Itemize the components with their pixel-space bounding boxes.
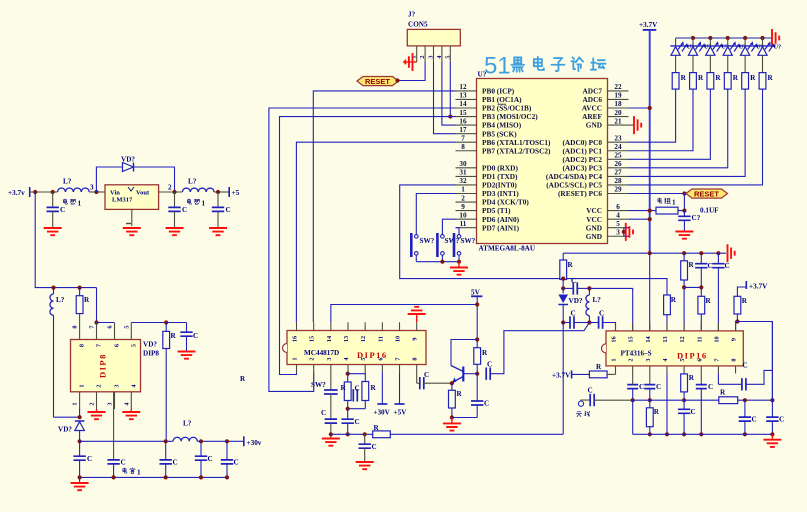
junction GND pins bbox=[622, 230, 626, 234]
svg-text:R: R bbox=[715, 74, 721, 82]
wire PB6 to MC44817 pin16 bbox=[296, 142, 455, 322]
capacitor C (MC pin4 node) bbox=[342, 409, 360, 435]
junction rail / cap column 745 bbox=[743, 432, 747, 436]
svg-text:L?: L? bbox=[593, 296, 602, 304]
antenna 天线 bbox=[578, 401, 583, 406]
resistor R (PT pin12 column) bbox=[681, 251, 695, 331]
svg-text:C: C bbox=[708, 383, 713, 391]
svg-text:7: 7 bbox=[713, 358, 720, 361]
capacitor C (base bypass) bbox=[452, 374, 489, 418]
chip U? MC44817D body bbox=[283, 331, 427, 365]
PT4316 pin stubs and numbers bbox=[611, 323, 738, 374]
capacitor C (rail mid) bbox=[160, 441, 178, 477]
svg-text:R: R bbox=[768, 74, 774, 82]
svg-text:C: C bbox=[691, 408, 696, 416]
capacitor C (PT pin3) bbox=[644, 374, 661, 401]
svg-text:DIP8: DIP8 bbox=[143, 350, 159, 358]
svg-text:12: 12 bbox=[459, 83, 467, 91]
svg-text:VD?: VD? bbox=[121, 156, 135, 164]
varicap diode VD? bbox=[558, 288, 582, 322]
svg-text:C: C bbox=[182, 206, 187, 214]
svg-text:31: 31 bbox=[459, 169, 467, 177]
svg-text:C: C bbox=[743, 362, 748, 370]
ground above MC pin9 (inverted) bbox=[408, 307, 426, 323]
ground at GND pins 5,3 bbox=[626, 223, 633, 241]
wire +3.7v feed bbox=[30, 191, 58, 193]
MC44817D pin stubs and numbers bbox=[292, 322, 419, 372]
svg-text:1: 1 bbox=[78, 200, 82, 208]
svg-text:R: R bbox=[720, 389, 726, 397]
capacitor C (PT pin10 column) bbox=[712, 251, 730, 331]
svg-text:L?: L? bbox=[56, 296, 65, 304]
junction pin3 bottom rail bbox=[648, 432, 652, 436]
3.7V rail top of PT section bbox=[563, 252, 726, 254]
svg-text:8: 8 bbox=[461, 143, 465, 151]
wire DIP8 pin5 to RC bbox=[131, 323, 186, 340]
connector J? CON5 bbox=[407, 11, 460, 46]
svg-text:R: R bbox=[341, 384, 347, 392]
switch SW1 bbox=[411, 233, 434, 257]
bottom ground rail bbox=[80, 476, 227, 478]
svg-text:15: 15 bbox=[309, 336, 316, 342]
svg-text:VD?: VD? bbox=[58, 426, 72, 434]
svg-text:R: R bbox=[171, 332, 177, 340]
junction DIP8 rail / resistor bbox=[78, 286, 82, 290]
svg-text:1: 1 bbox=[202, 200, 206, 208]
resistor R (PT pin11 series) bbox=[698, 287, 712, 331]
switch SW2 bbox=[437, 233, 459, 257]
wire LED resistor #1 to PC0 bbox=[629, 89, 676, 142]
wire pins7-6 tie bbox=[97, 323, 115, 340]
ground below rail bypass cap bbox=[356, 462, 374, 469]
resistor R (DIP8 pin8) bbox=[76, 288, 90, 340]
svg-text:R: R bbox=[671, 296, 677, 304]
op-amp U? ATMEGA8L-8AU body bbox=[477, 71, 608, 253]
svg-text:32: 32 bbox=[459, 177, 467, 185]
resistor 电阻1 (reset pullup) bbox=[656, 198, 678, 214]
svg-text:C: C bbox=[372, 443, 377, 451]
wire DIP8 pin1 to +30v rail bbox=[54, 409, 80, 417]
svg-text:R: R bbox=[482, 349, 488, 357]
svg-text:R: R bbox=[371, 384, 377, 392]
wire rail to PT pin14 bbox=[649, 253, 651, 331]
resistor R (PT pin13 series) bbox=[664, 295, 677, 331]
svg-text:14: 14 bbox=[459, 100, 467, 108]
junction +5 filter cap bbox=[216, 190, 220, 194]
svg-text:20: 20 bbox=[614, 109, 622, 117]
svg-text:1: 1 bbox=[292, 357, 299, 360]
wire PD7 to switch SW3 bbox=[456, 228, 460, 235]
capacitor C? 0.1UF bbox=[678, 207, 719, 223]
LED U? #3 bbox=[706, 38, 729, 73]
svg-text:5: 5 bbox=[360, 357, 367, 360]
ground below +5 filter cap bbox=[209, 211, 227, 235]
svg-text:C: C bbox=[208, 455, 213, 463]
junction pin5 bottom rail bbox=[682, 432, 686, 436]
svg-text:U?: U? bbox=[774, 44, 782, 51]
power +5 terminal bbox=[229, 187, 239, 197]
svg-text:ATMEGA8L-8AU: ATMEGA8L-8AU bbox=[479, 245, 536, 253]
DIP8 bottom pin stubs bbox=[80, 392, 132, 409]
regulator U? LM317 Vin/Vout bbox=[105, 185, 159, 210]
junction rail cap 1 bbox=[164, 439, 168, 443]
chip U? DIP8 body bbox=[71, 340, 160, 392]
svg-text:U?: U? bbox=[478, 71, 487, 79]
resistor R (base bias) bbox=[474, 348, 488, 365]
svg-text:51: 51 bbox=[484, 53, 511, 80]
svg-text:R: R bbox=[706, 297, 712, 305]
svg-text:C: C bbox=[484, 400, 489, 408]
junction LED rail 6 bbox=[760, 36, 764, 40]
svg-text:Vout: Vout bbox=[136, 190, 150, 197]
wire varicap column down to rail bbox=[562, 323, 564, 435]
junction DIP8 rail / inductor bbox=[51, 286, 55, 290]
svg-text:22: 22 bbox=[614, 83, 622, 91]
chip U? PT4316-S body bbox=[602, 331, 744, 366]
junction LED rail 2 bbox=[691, 36, 695, 40]
power +3.7V at PT pin9 bbox=[746, 281, 768, 291]
LED U? #2 bbox=[688, 38, 711, 73]
junction +30v rail left bbox=[78, 439, 82, 443]
resistor R (varicap feed) bbox=[560, 253, 574, 279]
svg-text:CON5: CON5 bbox=[408, 21, 428, 29]
junction LED rail 5 bbox=[743, 36, 747, 40]
inductor L? 电感1 (input) bbox=[58, 178, 90, 208]
svg-text:19: 19 bbox=[614, 92, 622, 100]
junction +3.7v branch down bbox=[33, 190, 37, 194]
ground below input cap bbox=[44, 211, 62, 235]
capacitor C (column 745) bbox=[739, 400, 757, 434]
svg-text:28: 28 bbox=[614, 177, 622, 185]
svg-text:3: 3 bbox=[114, 384, 121, 387]
svg-text:R: R bbox=[568, 261, 574, 269]
power +3.7V top bbox=[639, 21, 658, 30]
svg-text:30: 30 bbox=[459, 160, 467, 168]
svg-text:18: 18 bbox=[614, 100, 622, 108]
svg-text:VD?: VD? bbox=[569, 297, 583, 305]
svg-text:SW?: SW? bbox=[461, 237, 476, 245]
wire regulator output bbox=[159, 191, 183, 193]
junction pin4 bottom rail bbox=[665, 432, 669, 436]
wire LED resistor #3 to PC2 bbox=[629, 89, 711, 159]
svg-text:6: 6 bbox=[696, 358, 703, 361]
svg-text:5: 5 bbox=[123, 325, 130, 328]
wire CON5 pin3 to PB5 row bbox=[434, 62, 456, 134]
junction 5V / MC pin14 wire bbox=[475, 302, 479, 306]
svg-text:+3.7V: +3.7V bbox=[749, 283, 768, 291]
junction tank bottom right bbox=[587, 320, 591, 324]
regulator ADJ pin to ground bbox=[123, 209, 141, 235]
svg-text:C: C bbox=[424, 371, 429, 379]
wire VCC pin6 row bbox=[629, 210, 657, 212]
DIP8 pin numbers bbox=[72, 325, 138, 405]
svg-text:2: 2 bbox=[89, 402, 96, 405]
svg-text:C: C bbox=[708, 262, 713, 270]
inductor L? (tank) bbox=[586, 288, 601, 322]
LED U? #6 bbox=[758, 38, 781, 73]
junction left rail / pin4 cap bbox=[346, 432, 350, 436]
svg-text:C: C bbox=[234, 459, 239, 467]
svg-text:7: 7 bbox=[96, 344, 103, 347]
svg-text:24: 24 bbox=[614, 143, 622, 151]
svg-text:C: C bbox=[571, 310, 576, 318]
svg-text:3: 3 bbox=[90, 184, 94, 192]
junction rail / +3.7V feed bbox=[648, 251, 652, 255]
svg-text:6: 6 bbox=[616, 203, 620, 211]
capacitor C 电容1 (DIP8 pin3) bbox=[107, 392, 141, 478]
capacitor C (rail bypass) bbox=[359, 434, 377, 462]
svg-text:6: 6 bbox=[114, 344, 121, 347]
junction pin3 bus bbox=[648, 398, 652, 402]
svg-text:11: 11 bbox=[696, 337, 703, 343]
svg-text:5: 5 bbox=[444, 55, 451, 58]
junction CON5 pin5 / PB3 bbox=[448, 114, 452, 118]
svg-text:7: 7 bbox=[461, 134, 465, 142]
resonator at MC pin3 (upper) bbox=[314, 372, 338, 394]
wires switches to ground rail bbox=[416, 255, 459, 262]
svg-text:2: 2 bbox=[309, 357, 316, 360]
svg-text:+3.7V: +3.7V bbox=[639, 21, 658, 29]
bus 400 right segment bbox=[738, 399, 773, 401]
svg-text:C: C bbox=[321, 409, 326, 417]
ground below output cap bbox=[166, 211, 184, 235]
wire rail to DIP8 pin7 bbox=[96, 288, 98, 323]
junction pin9 node bbox=[735, 319, 739, 323]
svg-text:+3.7v: +3.7v bbox=[8, 189, 25, 197]
junction reset node / cap bbox=[682, 209, 686, 213]
svg-text:29: 29 bbox=[614, 186, 622, 194]
svg-text:+5: +5 bbox=[232, 189, 240, 197]
svg-text:8: 8 bbox=[72, 325, 79, 328]
junction varicap top node bbox=[561, 277, 565, 281]
svg-text:23: 23 bbox=[614, 134, 622, 142]
svg-text:8: 8 bbox=[412, 357, 419, 360]
svg-text:MC44817D: MC44817D bbox=[304, 349, 339, 357]
resistor R (LED #6) bbox=[759, 73, 773, 90]
ground MC pin3 bbox=[322, 439, 340, 446]
resistor R (LED #3) bbox=[707, 73, 721, 90]
ground below pin5 cap bbox=[178, 352, 196, 359]
svg-text:13: 13 bbox=[459, 92, 467, 100]
power +30V terminal at MC pin6 bbox=[373, 372, 390, 416]
svg-text:26: 26 bbox=[614, 160, 622, 168]
CON5 pins 1-5 bbox=[411, 46, 452, 62]
inductor L? 电感1 (output) bbox=[182, 178, 214, 208]
left bottom rail to varicap column bbox=[331, 433, 563, 435]
RESET net flag (right) bbox=[686, 189, 728, 198]
wire LED resistor #5 to PC4 bbox=[629, 89, 746, 176]
junction emitter node bbox=[450, 381, 454, 385]
LED anode rail top right bbox=[676, 37, 772, 39]
bus 400 wires bbox=[633, 399, 719, 401]
junction varicap / cap node bbox=[561, 286, 565, 290]
svg-text:1: 1 bbox=[672, 199, 676, 207]
resistor R (LED #4) bbox=[724, 73, 738, 90]
capacitor C (rail 4) bbox=[195, 441, 213, 477]
svg-text:1: 1 bbox=[611, 358, 618, 361]
svg-text:R: R bbox=[374, 424, 380, 432]
svg-text:12: 12 bbox=[679, 336, 686, 342]
capacitor C (MC pin3 lower) bbox=[321, 394, 337, 439]
ground bottom left bbox=[71, 477, 89, 490]
wire PD2 to varicap node and PT4316 pin13 bbox=[400, 185, 667, 295]
svg-text:16: 16 bbox=[292, 336, 299, 342]
svg-text:12: 12 bbox=[360, 336, 367, 342]
capacitor C (amp output coupling) bbox=[486, 323, 589, 380]
svg-text:3: 3 bbox=[645, 358, 652, 361]
wire PD6 to switch SW2 bbox=[442, 219, 455, 235]
wire AVCC row bbox=[629, 107, 650, 109]
wire pullup to reset node bbox=[678, 194, 684, 211]
junction DIP8 pin7 top bbox=[94, 320, 98, 324]
power 5V bbox=[471, 289, 482, 297]
junction base node bbox=[475, 372, 479, 376]
svg-text:9: 9 bbox=[412, 337, 419, 340]
junction MC pin3 / left rail bbox=[329, 432, 333, 436]
svg-text:Vin: Vin bbox=[110, 190, 120, 197]
svg-text:2: 2 bbox=[96, 384, 103, 387]
wire PC6 to RESET flag bbox=[629, 193, 685, 195]
junction PC6 reset node bbox=[682, 191, 686, 195]
svg-text:11: 11 bbox=[460, 220, 467, 228]
power +30v terminal bbox=[244, 436, 262, 447]
U? left pins PB0-PD7 with numbers bbox=[456, 83, 552, 232]
svg-text:3: 3 bbox=[428, 55, 435, 58]
wire CON5 pin5 to PB3 row bbox=[449, 62, 451, 117]
capacitor C (DIP8 pin5) bbox=[180, 323, 198, 352]
svg-text:+30V: +30V bbox=[373, 409, 390, 417]
svg-text:C: C bbox=[725, 262, 730, 270]
junction VCC / +3.7V rail bbox=[648, 209, 652, 213]
svg-text:2: 2 bbox=[461, 194, 465, 202]
svg-text:0.1UF: 0.1UF bbox=[700, 207, 719, 215]
svg-text:C: C bbox=[60, 206, 65, 214]
U? right pins ADC/PC/VCC/GND with numbers bbox=[546, 83, 629, 241]
svg-text:27: 27 bbox=[614, 169, 622, 177]
svg-text:9: 9 bbox=[731, 338, 738, 341]
svg-text:5V: 5V bbox=[471, 289, 481, 297]
svg-text:25: 25 bbox=[614, 152, 622, 160]
tank bottom wire and caps to PT pin16 bbox=[563, 310, 615, 331]
junction rail / bypass cap bbox=[363, 432, 367, 436]
junction node 2 bbox=[172, 190, 176, 194]
diode VD? (bypass over regulator) bbox=[96, 156, 174, 193]
svg-text:5: 5 bbox=[616, 220, 620, 228]
ground bottom right bbox=[763, 434, 781, 447]
wire pin12 to pin11 node bbox=[684, 286, 701, 288]
junction bottom rail points bbox=[78, 475, 230, 479]
capacitor C (+5 filter) bbox=[212, 192, 231, 214]
junction VCC pin4 / +3.7V rail bbox=[648, 217, 652, 221]
svg-text:+5V: +5V bbox=[394, 409, 408, 417]
svg-text:LM317: LM317 bbox=[112, 197, 133, 204]
junction pin2 bus bbox=[631, 398, 635, 402]
wire +3.7v down to DIP8 rail bbox=[35, 192, 96, 288]
svg-text:R: R bbox=[750, 74, 756, 82]
svg-text:C: C bbox=[779, 416, 784, 424]
svg-text:C: C bbox=[355, 418, 360, 426]
svg-text:PD7 (AIN1): PD7 (AIN1) bbox=[482, 223, 520, 232]
svg-text:C: C bbox=[193, 332, 198, 340]
junction tank bottom left bbox=[561, 320, 565, 324]
ground at CON5 pin 1 bbox=[403, 53, 417, 71]
svg-text:C: C bbox=[571, 277, 576, 285]
ground below reset cap bbox=[675, 220, 693, 238]
svg-text:RESET: RESET bbox=[694, 189, 719, 198]
svg-text:11: 11 bbox=[377, 336, 384, 342]
wire +3.7V rail down to AVCC, VCC and 3.7V rail bbox=[649, 30, 651, 253]
svg-text:2: 2 bbox=[628, 358, 635, 361]
resistor R (LED #5) bbox=[742, 73, 756, 90]
svg-text:1: 1 bbox=[137, 469, 141, 477]
wire LED resistor #6 to PC5 bbox=[629, 89, 763, 185]
capacitor C (pin1 node) bbox=[73, 441, 92, 477]
svg-text:SW?: SW? bbox=[420, 237, 435, 245]
ground at right end of LED rail bbox=[772, 29, 779, 47]
junction SW3 ground rail bbox=[457, 260, 461, 264]
svg-text:R: R bbox=[733, 74, 739, 82]
bottom rail right section bbox=[633, 433, 773, 435]
junction pin12/pin11 tie bbox=[682, 285, 686, 289]
junction emitter ground rail bbox=[450, 415, 454, 419]
svg-text:3: 3 bbox=[107, 402, 114, 405]
wire pin9 node down to chip bbox=[736, 322, 738, 331]
svg-text:C: C bbox=[87, 455, 92, 463]
svg-text:4: 4 bbox=[616, 211, 620, 219]
svg-text:GND: GND bbox=[586, 232, 602, 241]
wire varicap node down bbox=[562, 279, 564, 289]
svg-text:13: 13 bbox=[343, 336, 350, 342]
capacitor C (PT pin11 column) bbox=[695, 251, 713, 289]
resistor R (bus horizontal) bbox=[719, 389, 738, 404]
svg-text:3: 3 bbox=[326, 357, 333, 360]
svg-text:L?: L? bbox=[183, 420, 192, 428]
diode VD? (boost rectifier) bbox=[58, 421, 84, 441]
wire LED resistor #4 to PC3 bbox=[629, 89, 728, 168]
svg-text:10: 10 bbox=[713, 336, 720, 342]
svg-text:C: C bbox=[599, 310, 604, 318]
capacitor C (PT pin2) bbox=[627, 374, 644, 401]
wire pin2 column down to bottom rail bbox=[632, 400, 634, 434]
svg-text:R: R bbox=[689, 374, 695, 382]
wire collector branch bbox=[451, 340, 477, 366]
wire CON5 pin2 to RESET net bbox=[398, 62, 426, 81]
junction node 3 bbox=[94, 190, 98, 194]
ground below switches bbox=[450, 262, 468, 275]
+30v rail bbox=[80, 440, 244, 442]
svg-text:17: 17 bbox=[459, 126, 467, 134]
LED cathode bar line bbox=[670, 45, 775, 47]
power +5V terminal at MC pin7 bbox=[394, 372, 408, 416]
ground DIP8 pin4 bbox=[122, 409, 140, 419]
ground at GND pin21 bbox=[629, 116, 642, 134]
junction rail cap 2 bbox=[199, 439, 203, 443]
resistor R (horizontal on rail) bbox=[373, 424, 391, 438]
wires GND pins 5,3 to ground bbox=[624, 228, 629, 237]
svg-text:C: C bbox=[226, 206, 231, 214]
svg-text:L?: L? bbox=[188, 178, 197, 186]
svg-text:R: R bbox=[240, 375, 246, 383]
overline above SS in PB2 label bbox=[498, 103, 507, 105]
svg-text:R: R bbox=[742, 297, 748, 305]
svg-text:L?: L? bbox=[63, 178, 72, 186]
resistor R (PT pin3 column) bbox=[646, 400, 659, 434]
svg-text:C: C bbox=[639, 383, 644, 391]
svg-text:GND: GND bbox=[586, 121, 602, 130]
svg-text:R: R bbox=[596, 363, 602, 371]
resistor R (emitter) bbox=[449, 383, 463, 417]
ground below emitter bbox=[443, 418, 461, 431]
